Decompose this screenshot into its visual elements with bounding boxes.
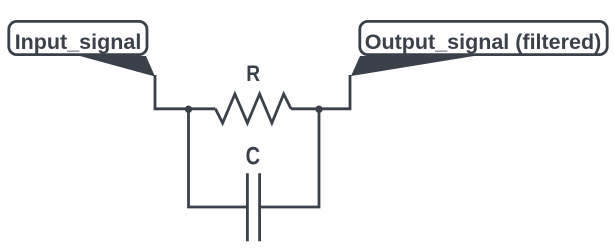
junction xyxy=(185,106,192,113)
svg-text:Input_signal: Input_signal xyxy=(15,30,142,54)
node Input_signal xyxy=(9,21,155,76)
wire xyxy=(319,75,350,109)
wire xyxy=(189,109,247,207)
resistor R xyxy=(215,62,291,123)
node Output_signal (filtered) xyxy=(351,21,607,76)
svg-text:C: C xyxy=(246,142,260,170)
wire xyxy=(261,109,319,207)
wire xyxy=(155,75,189,109)
wire xyxy=(189,107,216,110)
wire xyxy=(291,107,319,110)
svg-text:R: R xyxy=(246,62,260,87)
svg-text:Output_signal (filtered): Output_signal (filtered) xyxy=(365,30,602,54)
capacitor C xyxy=(246,142,260,241)
junction xyxy=(315,106,322,113)
